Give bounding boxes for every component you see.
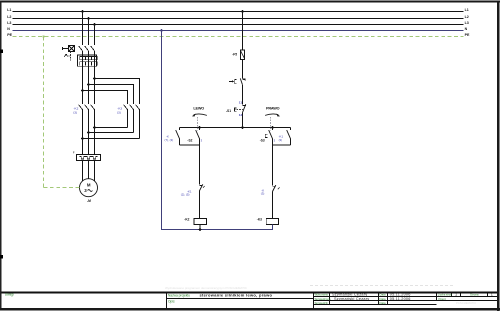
left edge fold mark lower xyxy=(0,255,3,258)
contactor K2 pole 1 xyxy=(79,105,83,155)
wire K3 feed from L3 xyxy=(95,79,140,105)
power line N xyxy=(7,27,467,31)
wire crossover phase swap 1 xyxy=(95,127,128,129)
svg-text:Wydrukowano programem demonstr: Wydrukowano programem demonstracyjnym PC… xyxy=(165,286,248,290)
node crossover 3 xyxy=(81,137,84,140)
faint demo footer xyxy=(165,286,476,305)
svg-text:(3): (3) xyxy=(261,192,265,196)
title block top border xyxy=(2,292,498,294)
faint dashed remnant xyxy=(310,284,455,286)
svg-text:L3: L3 xyxy=(465,21,469,25)
breaker Q1 thermal element 2 xyxy=(86,56,92,59)
node crossover 1 xyxy=(93,126,96,129)
svg-text:11: 11 xyxy=(239,101,243,105)
svg-text:-S1: -S1 xyxy=(226,109,231,113)
svg-text:LEWO: LEWO xyxy=(193,106,204,110)
svg-text:L1: L1 xyxy=(465,8,469,12)
wire K3 feed from L2 xyxy=(89,85,134,105)
svg-text:N: N xyxy=(465,27,468,31)
node K3 feed L2 xyxy=(87,83,90,86)
svg-text:(3): (3) xyxy=(117,111,121,115)
svg-text:F: F xyxy=(73,151,75,155)
interlock NC contact right xyxy=(261,185,280,196)
wire right parallel join xyxy=(273,139,291,186)
node K3 feed L3 xyxy=(93,77,96,80)
node control feed on L1 xyxy=(241,10,244,13)
svg-text:Szymański Cezary: Szymański Cezary xyxy=(334,297,369,301)
control bus xyxy=(180,127,291,129)
svg-text:1: 1 xyxy=(491,293,493,297)
node L1 tap xyxy=(81,10,84,13)
wire crossover phase swap 2 xyxy=(89,132,134,134)
breaker Q1 magnetic element 2 xyxy=(86,62,92,66)
svg-text:-S2: -S2 xyxy=(187,139,192,143)
stop button S1 xyxy=(226,101,246,118)
svg-text:-K3: -K3 xyxy=(257,217,262,221)
svg-text:M: M xyxy=(87,182,91,187)
contactor K2 label xyxy=(73,106,78,114)
wire to stop button xyxy=(242,85,244,105)
node crossover 2 xyxy=(87,131,90,134)
node bus left button tap xyxy=(198,126,201,129)
svg-text:1: 1 xyxy=(455,293,457,297)
overload NC contact F4 xyxy=(229,78,246,84)
wire crossover phase swap 3 xyxy=(83,138,140,140)
breaker Q1 release box xyxy=(78,55,97,66)
svg-text:L2: L2 xyxy=(465,15,469,19)
svg-text:Sprawdzili: Sprawdzili xyxy=(315,301,329,305)
arrow PRAWO clockwise xyxy=(265,114,280,117)
node K3 feed L1 xyxy=(81,89,84,92)
svg-text:sterowanie silnikiem lewo, pr: sterowanie silnikiem lewo, prawo xyxy=(200,292,273,297)
wire L2 drop to breaker xyxy=(88,19,90,46)
svg-text:-M: -M xyxy=(87,199,91,203)
motor M xyxy=(80,179,98,203)
svg-text:Opis: Opis xyxy=(168,299,175,303)
svg-text:Klient: Klient xyxy=(439,297,446,301)
wire to coil K2 xyxy=(199,191,201,219)
svg-text:Data: Data xyxy=(380,301,386,305)
title block verticals xyxy=(167,293,488,309)
aux contact K3 holding xyxy=(279,128,291,146)
breaker Q1 thermal element 3 xyxy=(92,56,98,59)
wire left parallel join xyxy=(180,139,200,185)
breaker Q1 magnetic element 1 xyxy=(80,62,86,66)
breaker Q1 thermal element 1 xyxy=(80,56,86,59)
contactor K2 pole 3 xyxy=(91,105,95,155)
wire breaker poles through release box xyxy=(83,51,95,104)
wire fuse to overload contact xyxy=(242,60,244,79)
svg-text:-K2: -K2 xyxy=(184,217,189,221)
svg-text:PE: PE xyxy=(7,33,12,37)
power line PE xyxy=(7,33,470,37)
coil K3 xyxy=(257,217,279,229)
svg-text:N: N xyxy=(7,27,10,31)
title block horizontals xyxy=(167,297,498,305)
breaker Q1 pole 3 contact xyxy=(91,46,95,51)
svg-text:(2), (5): (2), (5) xyxy=(181,192,190,196)
svg-text:PCSCHEMATIC: PCSCHEMATIC xyxy=(456,301,476,305)
power line L2 xyxy=(7,15,469,19)
node bus right button tap xyxy=(271,126,274,129)
wire stop button to bus xyxy=(242,112,244,127)
svg-text:05.11.2006: 05.11.2006 xyxy=(390,297,411,301)
start button S2 LEWO xyxy=(187,117,202,143)
breaker Q1 trip arrow xyxy=(64,54,67,57)
wire L3 drop to breaker xyxy=(94,25,96,46)
contactor K3 label xyxy=(117,106,122,114)
contactor K3 pole 2 xyxy=(130,105,134,133)
breaker Q1 manual operator box xyxy=(63,46,75,52)
overload relay F1 xyxy=(73,151,101,161)
wire PE to motor green dashed xyxy=(44,37,80,188)
wire control feed drop xyxy=(242,12,244,51)
power line L3 xyxy=(7,21,469,25)
start button S3 PRAWO xyxy=(260,117,276,143)
arrow LEWO counterclockwise xyxy=(192,114,207,117)
svg-text:L2: L2 xyxy=(7,15,11,19)
svg-text:(7), (3): (7), (3) xyxy=(165,138,174,142)
wire motor leads xyxy=(83,161,95,182)
svg-text:12: 12 xyxy=(239,113,243,117)
svg-text:PE: PE xyxy=(465,33,470,37)
svg-text:Uwagi: Uwagi xyxy=(5,293,14,297)
title block green labels xyxy=(5,293,479,305)
node L3 tap xyxy=(93,23,96,26)
wire N branch blue xyxy=(162,31,273,230)
svg-text:-F5: -F5 xyxy=(232,53,237,57)
svg-text:PRAWO: PRAWO xyxy=(266,106,280,110)
title block values xyxy=(332,293,493,301)
power line L1 xyxy=(7,8,469,12)
svg-text:Strona: Strona xyxy=(470,293,479,297)
node coil K2 to N xyxy=(199,228,202,231)
node N branch tap xyxy=(160,29,163,32)
svg-text:Nazwa projektu: Nazwa projektu xyxy=(168,293,190,297)
breaker Q1 pole 1 contact xyxy=(79,46,83,51)
coil K2 xyxy=(184,217,206,229)
svg-text:(3): (3) xyxy=(279,138,283,142)
wire to coil K3 xyxy=(272,192,274,219)
aux contact K2 holding xyxy=(165,128,180,146)
wire L1 drop to breaker xyxy=(82,12,84,46)
node L2 tap xyxy=(87,17,90,20)
contactor K2 pole 2 xyxy=(85,105,89,155)
left edge fold mark upper xyxy=(0,49,3,53)
contactor K3 pole 3 xyxy=(136,105,140,139)
breaker Q1 linkage dashed xyxy=(67,52,71,61)
breaker Q1 pole 2 contact xyxy=(85,46,89,51)
svg-text:L1: L1 xyxy=(7,8,11,12)
node PE tap xyxy=(42,35,44,37)
wire K3 feed from L1 xyxy=(83,91,128,105)
svg-text:(3): (3) xyxy=(73,111,77,115)
breaker Q1 magnetic element 3 xyxy=(92,62,98,66)
svg-text:-S3: -S3 xyxy=(260,139,265,143)
fuse F5 xyxy=(232,50,244,60)
interlock NC contact left xyxy=(181,184,205,196)
node bus stop junction xyxy=(241,126,244,129)
contactor K3 pole 1 xyxy=(124,105,128,128)
svg-text:L3: L3 xyxy=(7,21,11,25)
